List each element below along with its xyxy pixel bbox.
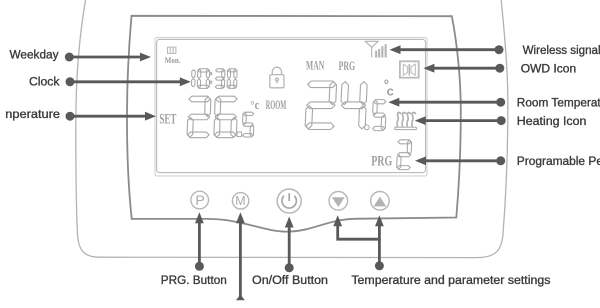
heating icon	[395, 113, 416, 130]
svg-text:P: P	[195, 192, 204, 208]
set temp .5 digit	[243, 112, 253, 115]
signal bars	[375, 44, 387, 57]
svg-text:ROOM: ROOM	[266, 98, 287, 112]
svg-text:Wireless signal: Wireless signal	[523, 43, 600, 57]
set temperature arrow	[66, 112, 75, 121]
svg-text:Room Temperature: Room Temperature	[517, 96, 600, 110]
set temperature 26.5	[189, 96, 210, 102]
LCD screen bezel	[155, 38, 427, 176]
programmable arrow	[496, 156, 505, 165]
battery icon	[168, 47, 176, 53]
svg-text:Weekday: Weekday	[10, 48, 60, 62]
on/off button	[277, 189, 301, 213]
thermostat body	[127, 16, 461, 232]
LCD display area	[157, 39, 426, 172]
svg-text:Mon.: Mon.	[165, 55, 181, 65]
room temperature arrow	[496, 98, 505, 107]
clock 10:30	[192, 70, 196, 78]
svg-text:PRG: PRG	[339, 59, 356, 73]
PRG button P	[191, 191, 209, 209]
svg-text:SET: SET	[159, 111, 176, 127]
svg-text:c: c	[387, 84, 394, 99]
down button	[329, 192, 348, 211]
clock arrow	[66, 77, 75, 86]
svg-text:Programable Periods: Programable Periods	[517, 154, 600, 168]
up button	[371, 192, 390, 211]
temperature settings arrows	[338, 219, 380, 239]
clock colon	[210, 73, 212, 84]
programmable period digit 2	[398, 140, 411, 144]
svg-text:MAN: MAN	[306, 58, 324, 72]
svg-text:Heating Icon: Heating Icon	[517, 114, 587, 128]
svg-text:PRG. Button: PRG. Button	[161, 273, 227, 287]
OWD icon	[400, 61, 419, 77]
wireless arrow	[495, 45, 504, 54]
room temp decimal point	[364, 125, 369, 130]
mode button arrow	[239, 222, 242, 298]
OWD arrow	[495, 64, 504, 73]
svg-text:M: M	[235, 194, 245, 208]
svg-text:Temperature and parameter sett: Temperature and parameter settings	[351, 273, 550, 287]
lock icon	[270, 67, 284, 88]
room temp .5 digit	[374, 100, 386, 104]
room temperature 24.5	[308, 81, 336, 88]
weekday arrow	[65, 53, 74, 62]
set temp decimal point	[237, 132, 242, 137]
svg-text:nperature: nperature	[5, 107, 60, 121]
PRG button arrow	[195, 262, 204, 271]
svg-text:Clock: Clock	[29, 74, 60, 88]
heating arrow	[497, 116, 506, 125]
outer shell	[76, 0, 508, 258]
mode button M	[232, 193, 248, 209]
svg-text:°c: °c	[250, 98, 259, 112]
svg-text:PRG: PRG	[371, 154, 392, 170]
on/off button arrow	[285, 263, 294, 272]
wireless antenna icon	[365, 41, 378, 57]
svg-text:OWD Icon: OWD Icon	[521, 61, 577, 75]
svg-text:On/Off Button: On/Off Button	[252, 273, 328, 287]
